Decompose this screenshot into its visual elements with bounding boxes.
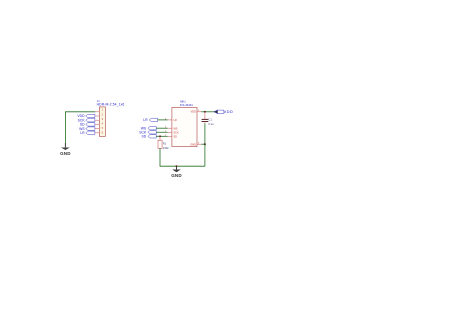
svg-text:GND: GND: [60, 151, 71, 156]
net port SD at IC: [141, 135, 156, 139]
wire vertical down to ground rail: [204, 144, 206, 166]
net port VDD right: [214, 109, 233, 114]
net port SD at J1 pin 4: [80, 123, 95, 127]
junction ground rail / GND symbol: [176, 165, 178, 167]
net port VDD at J1 pin 2: [77, 114, 94, 118]
wire GND pin to vertical: [201, 143, 205, 145]
net port LR at IC: [143, 118, 157, 122]
resistor R1: [158, 136, 162, 148]
net port LR at J1 pin 6: [80, 131, 95, 135]
svg-text:SCK: SCK: [174, 131, 179, 134]
wire SD to IC: [156, 135, 168, 137]
svg-text:VDD: VDD: [224, 109, 234, 114]
net port WS at J1 pin 5: [79, 127, 95, 131]
junction GND pin / vertical: [204, 143, 206, 145]
svg-text:0.1u: 0.1u: [208, 122, 214, 126]
ground GND (left): [60, 143, 71, 156]
connector J1 body: [99, 107, 105, 136]
svg-text:100k: 100k: [163, 146, 169, 150]
svg-text:C1: C1: [208, 118, 212, 122]
wire R1 to ground rail: [160, 148, 205, 166]
ground GND (right): [171, 166, 182, 178]
svg-text:GND: GND: [171, 173, 182, 178]
wire WS to IC: [156, 127, 168, 129]
svg-text:R1: R1: [163, 142, 167, 146]
connector J1 pin stubs: [95, 112, 99, 133]
junction SD / R1: [159, 135, 161, 137]
svg-text:MK1: MK1: [180, 99, 186, 103]
wire SCK to IC: [156, 131, 168, 133]
net port SCK at IC: [139, 130, 156, 134]
svg-text:LR: LR: [80, 131, 85, 135]
wire VDD net: [201, 111, 215, 113]
svg-text:VDD: VDD: [191, 111, 196, 114]
IC MK1 body: [172, 107, 197, 146]
svg-text:GND: GND: [190, 143, 196, 146]
IC MK1 pin stubs left: [168, 120, 172, 136]
connector J1 pin numbers 1-6: [102, 108, 104, 135]
wire net GND left (from J1 pin 1): [65, 112, 95, 143]
net port SCK at J1 pin 3: [78, 118, 95, 122]
svg-text:LR: LR: [143, 118, 148, 122]
svg-text:HDR-M-2.54_1x6: HDR-M-2.54_1x6: [97, 103, 125, 107]
net port WS at IC: [141, 126, 156, 130]
wire C1 to GND pin row: [204, 123, 206, 144]
capacitor C1: [202, 112, 209, 124]
svg-text:LR: LR: [174, 119, 177, 122]
junction VDD / C1: [204, 111, 206, 113]
wire LR to IC: [158, 119, 168, 121]
svg-text:ICS-43434: ICS-43434: [180, 103, 193, 107]
svg-text:SD: SD: [174, 135, 178, 138]
svg-text:WS: WS: [174, 127, 178, 130]
IC MK1 pin stubs right: [197, 112, 201, 144]
svg-text:SD: SD: [141, 135, 146, 139]
